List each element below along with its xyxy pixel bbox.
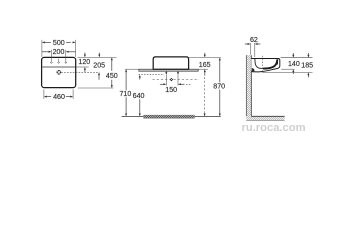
dim 460 [43, 89, 45, 99]
dim 200 [42, 51, 49, 53]
bowl sweep curve [263, 59, 277, 68]
bowl inner front wall [277, 59, 279, 64]
svg-text:500: 500 [53, 39, 65, 47]
dim 150 [160, 83, 164, 85]
bolt mark left [165, 71, 167, 72]
hidden line B (drain level) [153, 79, 200, 81]
dim 640 [139, 75, 141, 78]
svg-text:710: 710 [119, 90, 131, 98]
140 bottom extension [281, 68, 294, 70]
slab top extension left [125, 68, 139, 70]
svg-text:140: 140 [288, 60, 300, 68]
dim 870 [219, 58, 221, 61]
svg-text:205: 205 [93, 61, 105, 69]
dim 62 [250, 43, 252, 55]
bolt mark right [177, 71, 179, 72]
dashed drop to floor 165 [204, 77, 206, 113]
side top extension [281, 57, 313, 59]
floor hatch front [144, 115, 195, 119]
dim 450 [111, 57, 113, 60]
faucet holes [50, 61, 52, 63]
slab top extension right [198, 68, 208, 70]
hidden line A (mounting) [139, 74, 165, 76]
dim 165 [204, 53, 206, 55]
basin front face [153, 57, 188, 69]
svg-text:120: 120 [78, 58, 90, 66]
dim 140 [292, 53, 294, 55]
svg-text:450: 450 [106, 72, 118, 80]
inner rim line [42, 66, 75, 68]
basin top extension right [189, 57, 221, 59]
shelf slab [139, 69, 198, 71]
faucet centerline side [262, 56, 264, 71]
svg-text:200: 200 [53, 48, 65, 56]
floor hatched side [246, 116, 284, 120]
svg-text:185: 185 [301, 62, 313, 70]
dim 120 [84, 53, 86, 55]
185 bottom extension [262, 71, 313, 73]
basin outline plan [42, 57, 76, 87]
drain blob [252, 68, 255, 71]
floor line front [122, 115, 221, 117]
basin profile outer [251, 59, 279, 72]
wall hatched [246, 55, 251, 116]
svg-text:62: 62 [250, 36, 258, 44]
svg-text:150: 150 [165, 86, 177, 94]
svg-text:ru.roca.com: ru.roca.com [242, 122, 306, 134]
plan bottom extension line right [78, 87, 114, 89]
rim extension line [76, 66, 89, 68]
drain center dashed line [61, 71, 99, 73]
faucet hole ticks [50, 50, 52, 61]
dim 710 [125, 69, 127, 72]
plan top extension line right [77, 56, 116, 58]
basin bowl inner [255, 59, 269, 69]
svg-text:870: 870 [213, 83, 225, 91]
svg-text:640: 640 [133, 92, 145, 100]
drain symbol [57, 70, 62, 75]
dim 205 [98, 53, 100, 55]
svg-text:460: 460 [53, 93, 65, 101]
svg-text:165: 165 [199, 61, 211, 69]
dim 185 [307, 53, 309, 55]
drain diamond front [170, 78, 172, 80]
dim 500 [41, 40, 43, 57]
